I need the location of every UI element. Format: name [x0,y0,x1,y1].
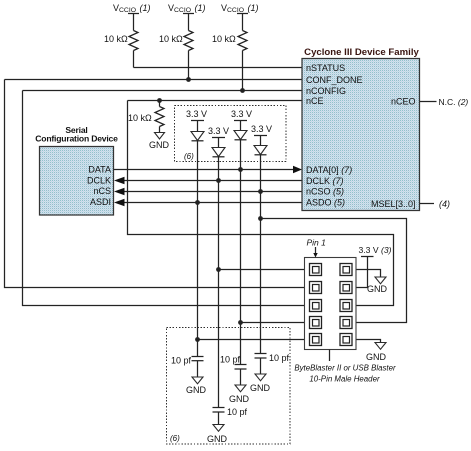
wire DATA to header pin7 [241,322,305,324]
resistor R1 10k pull-up nSTATUS [104,31,138,68]
node junction R4/nCE [157,98,162,103]
label Pin 1 pointer [307,238,327,258]
pin 7 pad [310,317,322,329]
power VCCIO supply 1 [113,3,151,31]
svg-text:10 kΩ: 10 kΩ [128,113,152,123]
svg-text:GND: GND [229,394,250,404]
wire v1 ASDI net vertical [197,141,199,357]
wire nCEO stub [420,101,437,103]
svg-text:(6): (6) [170,434,180,443]
pin 8 pad [340,317,352,329]
wire nCS to header pin8 [261,219,407,323]
node junction pin7/v3 [238,320,243,325]
diode D1 3.3V clamp [186,109,207,141]
wire nCS [123,191,302,193]
ground GND C2 [229,385,250,404]
capacitor dotted box (6) [167,328,291,445]
svg-text:nCS: nCS [93,186,111,196]
svg-text:10 pf: 10 pf [269,353,290,363]
node junction R2/CONF_DONE [186,77,191,82]
node junction ASDI/v1 [195,200,200,205]
svg-text:GND: GND [186,385,207,395]
svg-text:(4): (4) [439,199,450,209]
pin arrow into serial nCS [114,188,125,195]
pin 10 pad [340,334,352,346]
node junction DCLK/v2 [216,178,221,183]
svg-text:3.3 V: 3.3 V [231,109,252,119]
wire DCLK [123,180,302,182]
ground GND header pin2 [367,277,388,294]
pin 3 pad [310,282,322,294]
svg-text:nCEO: nCEO [391,97,416,107]
svg-text:GND: GND [366,352,387,362]
capacitor C3 10pf on nCS net [255,353,290,374]
label header caption [294,350,396,384]
svg-text:10 kΩ: 10 kΩ [212,34,236,44]
wire header pin2 to GND [357,270,381,278]
wire nSTATUS [134,67,303,69]
node junction DATA/v3 [238,167,243,172]
svg-text:DCLK: DCLK [87,175,111,185]
svg-text:10 kΩ: 10 kΩ [159,34,183,44]
resistor R3 10k pull-up nCONFIG [212,31,247,91]
power VCCIO supply 2 [168,3,206,31]
resistor R2 10k pull-up CONF_DONE [159,31,193,80]
node junction pin1/v2 [216,267,221,272]
serial configuration device U2 [35,125,118,215]
node junction nCS/v4 [258,189,263,194]
wire nCONFIG [23,90,303,92]
svg-text:Configuration Device: Configuration Device [35,134,118,144]
connector J1 10-pin header [305,258,357,350]
power 3.3V header supply (3) [357,245,392,288]
svg-text:ByteBlaster II or USB Blaster: ByteBlaster II or USB Blaster [294,364,396,373]
power VCCIO supply 3 [221,3,259,31]
svg-text:10 pf: 10 pf [227,407,248,417]
wire ASDI [123,202,302,204]
wire header pin10 to GND [357,340,381,343]
wire MSEL stub [420,203,435,205]
svg-text:3.3 V: 3.3 V [208,126,229,136]
svg-text:ASDI: ASDI [90,197,111,207]
svg-text:N.C. (2): N.C. (2) [439,97,469,107]
svg-text:10-Pin Male Header: 10-Pin Male Header [309,375,380,384]
wire DATA [114,169,299,171]
svg-text:3.3 V (3): 3.3 V (3) [359,245,392,255]
svg-text:10 pf: 10 pf [171,356,192,366]
ground GND C1 [186,377,207,395]
svg-text:GND: GND [149,140,170,150]
ground GND under R4 [149,133,170,151]
svg-text:ASDO (5): ASDO (5) [306,197,345,207]
diode clamp dotted box (6) [175,106,287,162]
svg-text:nSTATUS: nSTATUS [306,63,345,73]
FPGA U1 Cyclone III Device Family [302,47,420,211]
capacitor C4 10pf on DCLK net [213,407,248,425]
svg-text:MSEL[3..0]: MSEL[3..0] [371,199,416,209]
diode D3 3.3V clamp [231,109,252,140]
wire CONF_DONE left loop to header pin3 [5,80,305,288]
resistor R4 10k pull-down nCE [128,101,164,133]
wire nCE [128,100,303,102]
capacitor C1 10pf on ASDI net [171,356,204,378]
pin 9 pad [310,334,322,346]
svg-text:Pin 1: Pin 1 [307,238,327,248]
pin 5 pad [310,300,322,312]
pin 2 pad [340,264,352,276]
ground GND C3 [250,374,271,393]
svg-text:3.3 V: 3.3 V [186,109,207,119]
svg-text:GND: GND [207,434,228,444]
ground GND header pin10 [366,343,387,363]
wire ASDI to header pin9 [198,339,305,341]
svg-text:Cyclone III Device Family: Cyclone III Device Family [304,47,419,58]
pin arrow into serial DCLK [114,177,125,184]
svg-text:10 kΩ: 10 kΩ [104,34,128,44]
svg-text:DATA: DATA [88,165,111,175]
wire v2 DCLK net vertical [218,157,220,408]
wire nCONFIG left loop to header pin5 [23,91,305,306]
capacitor C2 10pf on DATA net [220,355,247,386]
svg-text:nCSO (5): nCSO (5) [306,187,344,197]
pin arrow into serial ASDI [114,199,125,206]
ground GND C4 [207,425,228,445]
wire v4 nCS net vertical [260,155,262,354]
svg-text:GND: GND [367,284,388,294]
svg-text:GND: GND [250,383,271,393]
svg-text:nCONFIG: nCONFIG [306,86,346,96]
wire DCLK to header pin1 [219,269,305,271]
svg-text:3.3 V: 3.3 V [251,124,272,134]
node junction nCS run/v4 [258,216,263,221]
svg-text:DCLK (7): DCLK (7) [306,176,344,186]
svg-text:(6): (6) [184,152,194,161]
node junction pin9/v1 [195,337,200,342]
wire CONF_DONE [5,79,303,81]
wire nCE loop to header pin6 [128,101,394,306]
svg-text:nCE: nCE [306,96,324,106]
wire v3 DATA net vertical [240,140,242,365]
node junction R3/nCONFIG [240,88,245,93]
svg-text:10 pf: 10 pf [220,355,241,365]
diode D2 3.3V clamp [208,126,229,157]
svg-text:CONF_DONE: CONF_DONE [306,75,363,85]
pin 1 pad [310,264,322,276]
pin 4 pad [340,282,352,294]
pin arrow into DATA[0] [293,166,302,173]
svg-text:DATA[0] (7): DATA[0] (7) [306,165,352,175]
pin 6 pad [340,300,352,312]
diode D4 3.3V clamp [251,124,272,155]
